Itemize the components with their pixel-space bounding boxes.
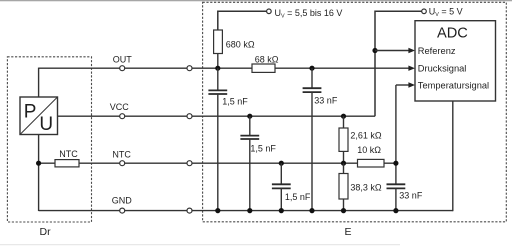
svg-text:2,61 kΩ: 2,61 kΩ [350,131,382,141]
wire OUT horizontal [39,67,409,69]
terminal circle Uv 5V [422,9,427,14]
resistor R4 38,3 kOhm [339,174,382,200]
node VCC/R 2,61k [341,114,346,119]
node OUT/680k/C1 [215,66,220,71]
node NTC/10k/temp [393,161,398,166]
resistor R5 10 kOhm [357,145,384,167]
resistor R1 680 kOhm [214,30,255,54]
svg-text:38,3 kΩ: 38,3 kΩ [350,183,382,193]
svg-text:Dr: Dr [40,226,52,238]
svg-text:NTC: NTC [59,149,78,159]
wire GND horizontal bus [39,210,453,212]
svg-text:U: U [39,114,53,135]
resistor R2 68 kOhm [252,54,279,72]
svg-text:1,5 nF: 1,5 nF [285,192,311,202]
node NTC/C3 [279,161,284,166]
svg-text:E: E [345,226,352,238]
svg-text:ADC: ADC [437,26,468,42]
svg-text:Temperatursignal: Temperatursignal [418,81,489,91]
wire OUT riser from P/U top [38,68,40,98]
node GND chain G [393,208,398,213]
wire chain D vertical bottom [311,92,313,211]
wire Referenz [375,50,409,52]
svg-text:10 kΩ: 10 kΩ [357,145,381,155]
svg-text:NTC: NTC [112,149,131,159]
svg-text:GND: GND [112,195,133,205]
wire 2,61k bottom to NTC node [343,151,345,163]
svg-text:UV = 5,5 bis 16 V: UV = 5,5 bis 16 V [275,8,343,20]
capacitor C5 33 nF [387,184,423,200]
wire chain C vertical bottom [280,188,282,210]
svg-text:UV = 5 V: UV = 5 V [429,6,463,18]
svg-text:OUT: OUT [113,55,133,65]
wire Temperatursignal horizontal [396,84,409,86]
svg-text:1,5 nF: 1,5 nF [250,143,276,153]
wire chain D vertical top [311,68,313,88]
svg-text:68 kΩ: 68 kΩ [255,54,279,64]
node OUT/C4 [309,66,314,71]
resistor NTC [55,149,79,167]
connector circles column 1 (OUT,VCC,NTC,GND) [120,66,125,213]
svg-text:VCC: VCC [110,102,130,112]
sensor cell P/U box [20,97,58,135]
wire supply rail left (Uv 5,5-16V) [218,11,267,30]
terminal circle Uv supply [267,9,272,14]
box Dr (sensor, dashed) [7,57,91,222]
svg-text:Drucksignal: Drucksignal [418,63,467,73]
wire supply rail right (Uv 5V) [375,11,422,116]
svg-text:Referenz: Referenz [418,46,456,56]
wire chain G vertical (temp node) [395,85,397,184]
wire chain C vertical top [280,163,282,184]
node GND divider [341,208,346,213]
node GND chain A [215,208,220,213]
arrowhead Temperatursignal [408,82,415,87]
arrowhead Referenz [408,48,415,53]
wire P/U bottom riser to GND [38,134,40,211]
capacitor C2 1,5 nF [240,136,276,154]
wire VCC horizontal [58,115,376,117]
wire ADC ground return [452,101,454,211]
node GND chain B [247,208,252,213]
top scan edge line [0,0,512,2]
arrowhead Drucksignal [408,66,415,71]
wire chain B vertical bottom [249,139,251,211]
wire C5 bottom to GND [395,188,397,210]
wire VCC to 2,61k top [343,116,345,128]
resistor R3 2,61 kOhm [339,128,382,151]
wire NTC node to 38,3k top [343,163,345,174]
wire chain A vertical (C1 to GND) [217,68,219,90]
node GND chain D [309,208,314,213]
wire chain B vertical top [249,116,251,135]
box E (ECU, dashed) [203,2,507,222]
node NTC divider [341,161,346,166]
svg-text:680 kΩ: 680 kΩ [226,40,255,50]
svg-text:33 nF: 33 nF [314,95,338,105]
svg-text:P: P [24,102,37,123]
svg-text:33 nF: 33 nF [399,190,423,200]
node VCC/C2 [247,114,252,119]
capacitor C1 1,5 nF [208,90,248,106]
wire 680k bottom to OUT node [217,54,219,69]
node Referenz tap [372,48,377,53]
node junction P/U-NTC [36,161,41,166]
capacitor C4 33 nF [303,88,338,105]
node GND chain C [279,208,284,213]
op block ADC U1 [415,21,496,101]
wire C1 bottom to GND [217,94,219,211]
bottom scan edge line [0,244,400,246]
wire 38,3k bottom to GND [343,199,345,211]
capacitor C3 1,5 nF [272,184,311,202]
wire NTC horizontal [39,162,396,164]
connector circles column 2 (OUT,VCC,NTC,GND) [187,66,192,213]
svg-text:1,5 nF: 1,5 nF [222,97,248,107]
